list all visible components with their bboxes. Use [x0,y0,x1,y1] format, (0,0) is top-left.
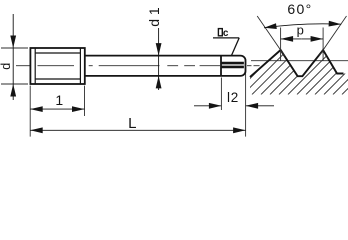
square end [221,56,246,76]
centerline [16,65,260,67]
dimension d [0,14,28,100]
svg-text:60°: 60° [287,1,312,17]
dimension d1 [146,7,162,90]
svg-text:L: L [128,115,136,132]
thread profile detail: major diameter line [251,60,348,62]
thread profile detail: tooth outline [250,50,344,77]
shank [85,56,221,76]
svg-text:p: p [297,23,304,38]
svg-text:d: d [0,63,13,70]
dimension l2 [194,74,274,137]
dimension L [30,115,245,132]
svg-text:1: 1 [55,92,63,108]
svg-text:l2: l2 [227,90,239,105]
dimension 60 degrees [264,1,341,28]
thread profile detail: hatching [234,45,348,95]
svg-text:d 1: d 1 [146,7,162,27]
label square c with leader [213,28,239,56]
dimension p [281,23,324,61]
dimension l1 [30,86,84,137]
thread portion box [30,48,84,84]
thread profile detail: flank extension lines [257,16,346,56]
